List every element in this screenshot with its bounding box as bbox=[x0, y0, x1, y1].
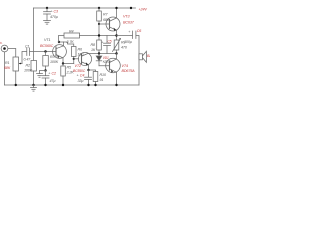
ground near C2 bbox=[37, 73, 43, 75]
svg-text:VT3: VT3 bbox=[123, 15, 130, 19]
resistor R3 bbox=[45, 52, 47, 56]
svg-text:BD675A: BD675A bbox=[122, 69, 136, 73]
node rail R7 bbox=[98, 7, 100, 9]
wire VT3 emitter bbox=[116, 30, 118, 40]
svg-text:68K: 68K bbox=[4, 66, 11, 70]
node VT3 base bbox=[98, 23, 100, 25]
ground main bbox=[33, 85, 35, 88]
svg-text:C1: C1 bbox=[25, 45, 30, 49]
capacitor C5 bbox=[106, 36, 108, 44]
capacitor C4 bbox=[88, 70, 90, 77]
svg-text:R6: R6 bbox=[78, 48, 84, 52]
node VT1 collector bbox=[58, 41, 60, 43]
node output bbox=[115, 34, 117, 36]
wire VT2 collector line bbox=[88, 53, 117, 55]
wire R4 left lead bbox=[59, 36, 65, 43]
svg-text:R4: R4 bbox=[69, 29, 74, 33]
node VT4 collector bbox=[115, 52, 117, 54]
capacitor C3 bbox=[46, 8, 48, 12]
wire output to C6 bbox=[117, 35, 133, 37]
svg-text:100K: 100K bbox=[50, 60, 59, 64]
svg-text:BC637: BC637 bbox=[123, 21, 135, 25]
node VT2 emitter bbox=[87, 69, 89, 71]
node rail C6 bbox=[130, 7, 132, 9]
node rail-C3 bbox=[46, 7, 48, 9]
wire R4 right to output line bbox=[80, 35, 117, 37]
svg-text:100: 100 bbox=[78, 53, 85, 57]
node C2 bottom bbox=[44, 84, 46, 86]
svg-text:+: + bbox=[101, 40, 104, 44]
transistor VT2 bbox=[78, 52, 91, 65]
node R5 bottom bbox=[62, 84, 64, 86]
svg-text:+24V: +24V bbox=[139, 8, 148, 12]
svg-text:VT4: VT4 bbox=[122, 64, 128, 68]
wire VT2 emitter down bbox=[88, 65, 90, 70]
wire VT3 collector bbox=[116, 8, 118, 18]
node R3-C2 bbox=[44, 69, 46, 71]
wire bottom rail bbox=[5, 84, 140, 86]
svg-text:470µ: 470µ bbox=[50, 15, 58, 19]
wire VT4 emitter bbox=[116, 72, 118, 85]
svg-text:C5: C5 bbox=[108, 40, 112, 44]
capacitor C1 bbox=[26, 48, 28, 56]
wire left branch from rail down bbox=[33, 8, 35, 61]
svg-text:C2: C2 bbox=[52, 72, 57, 76]
svg-text:Вх.: Вх. bbox=[0, 41, 3, 45]
svg-text:R9: R9 bbox=[121, 41, 126, 45]
wire VT1 collector up bbox=[63, 42, 65, 46]
svg-text:R3: R3 bbox=[50, 55, 56, 59]
resistor R6 bbox=[72, 47, 77, 57]
svg-text:R7: R7 bbox=[103, 13, 109, 17]
svg-text:BC560C: BC560C bbox=[40, 44, 54, 48]
svg-text:100K: 100K bbox=[24, 69, 33, 73]
node VT4 emitter bottom bbox=[115, 84, 117, 86]
connector X1 input bbox=[1, 45, 8, 52]
wire jog to R6 bbox=[64, 42, 74, 47]
resistor R8 bbox=[97, 40, 102, 50]
resistor R1 potentiometer bbox=[13, 57, 19, 71]
wire VT4 base bbox=[99, 65, 110, 67]
wire top rail +24V bbox=[34, 7, 136, 9]
node pot bottom bbox=[15, 84, 17, 86]
trimmer R9 bbox=[114, 40, 119, 50]
svg-text:R1: R1 bbox=[5, 61, 10, 65]
resistor R4 bbox=[64, 33, 80, 38]
node VT1 base bbox=[44, 50, 46, 52]
wire input to pot bbox=[8, 49, 16, 58]
svg-text:C6: C6 bbox=[137, 29, 143, 33]
svg-text:R8: R8 bbox=[91, 43, 97, 47]
svg-text:VT2: VT2 bbox=[75, 64, 81, 68]
wire VT1 emitter bbox=[63, 58, 74, 64]
wire pot wiper to C1 bbox=[22, 52, 27, 64]
svg-text:BC550C: BC550C bbox=[73, 69, 86, 73]
svg-text:33µ: 33µ bbox=[78, 79, 84, 83]
svg-text:R2: R2 bbox=[26, 64, 31, 68]
node VT1 emitter bbox=[62, 62, 64, 64]
node bootstrap line bbox=[98, 34, 100, 36]
transistor VT1 bbox=[53, 45, 67, 59]
node R2 bottom bbox=[32, 84, 34, 86]
svg-text:R5: R5 bbox=[67, 65, 73, 69]
svg-text:VT1: VT1 bbox=[44, 38, 50, 42]
wire to small ground bbox=[40, 71, 46, 74]
node R6 base VT2 bbox=[73, 58, 75, 60]
svg-text:47µ: 47µ bbox=[50, 79, 56, 83]
capacitor C6 bbox=[132, 31, 134, 39]
resistor R10 bbox=[93, 72, 98, 82]
resistor R5 bbox=[62, 64, 64, 67]
svg-text:КД521: КД521 bbox=[103, 60, 111, 64]
wire connector ground stem bbox=[4, 52, 6, 85]
svg-text:C3: C3 bbox=[54, 10, 60, 14]
svg-text:R10: R10 bbox=[100, 73, 107, 77]
svg-text:2.7K: 2.7K bbox=[66, 40, 75, 44]
transistor VT4 bbox=[106, 58, 121, 73]
svg-text:+: + bbox=[128, 30, 131, 34]
wire C6 to speaker bbox=[136, 36, 139, 86]
node bias bbox=[98, 52, 100, 54]
speaker BA1 bbox=[139, 54, 142, 60]
node R10 bottom bbox=[94, 84, 96, 86]
svg-text:BA: BA bbox=[147, 54, 150, 58]
wire to R10 bbox=[89, 70, 96, 72]
resistor R2 bbox=[31, 61, 37, 72]
wire C1 to VT1 base bbox=[30, 51, 56, 53]
ground below C3 bbox=[44, 20, 51, 22]
resistor R7 bbox=[98, 8, 100, 11]
svg-text:0.47: 0.47 bbox=[24, 57, 32, 61]
svg-text:1K: 1K bbox=[91, 48, 96, 52]
capacitor C2 bbox=[45, 71, 47, 76]
svg-text:C4: C4 bbox=[80, 74, 85, 78]
diode VD1 bbox=[98, 54, 100, 57]
transistor VT3 bbox=[106, 17, 120, 31]
node C4 bottom bbox=[87, 84, 89, 86]
svg-text:91: 91 bbox=[100, 78, 104, 82]
svg-text:470: 470 bbox=[121, 45, 128, 49]
